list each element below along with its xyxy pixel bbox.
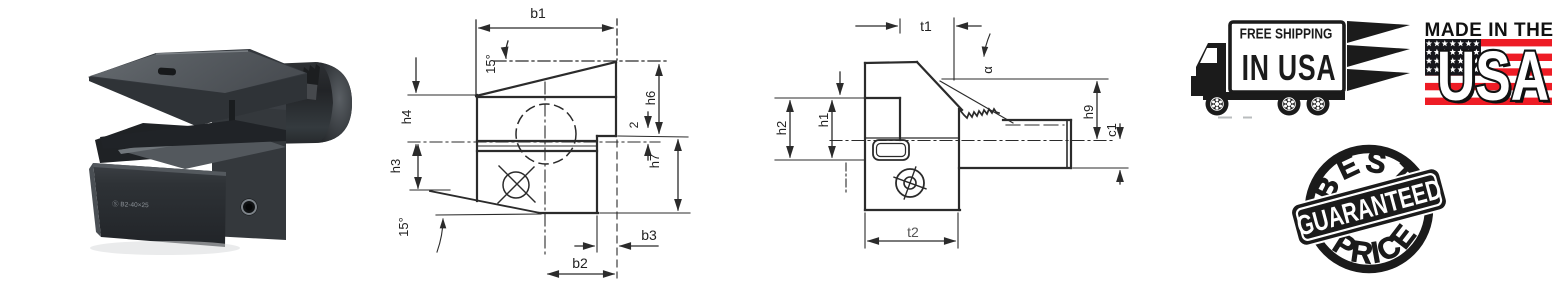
right body face [212, 66, 286, 240]
BEST arched text [1301, 136, 1424, 210]
speed stripe 1 [1347, 21, 1410, 43]
shank end inner line [1066, 120, 1068, 168]
body top edge [865, 62, 917, 63]
shank bottom extension [1073, 167, 1128, 169]
cylinder shank [266, 62, 352, 144]
svg-text:15°: 15° [396, 217, 411, 237]
h2 bottom extension line [775, 159, 865, 161]
sign box [1230, 22, 1344, 92]
truck chassis bar [1203, 92, 1345, 100]
b2 dimension line [548, 273, 614, 275]
cap silhouette [88, 49, 307, 126]
small centerline below seat [845, 163, 847, 192]
cap top slot [158, 67, 176, 75]
svg-text:h9: h9 [1081, 105, 1096, 119]
svg-text:IN USA: IN USA [1242, 47, 1337, 88]
PHOTO: VDI radial tool holder product render [60, 30, 360, 265]
screw inner dot arc [904, 177, 916, 189]
bottom extension line [600, 212, 690, 214]
cylinder serration patch [284, 70, 318, 100]
shank right end [1070, 120, 1072, 168]
bottom horizontal reference line [436, 214, 541, 215]
wheel rear 2 [1307, 93, 1330, 116]
h3 lower extension line [410, 189, 450, 191]
screw cross line 1 [498, 167, 534, 203]
base front top highlight [93, 163, 226, 176]
set screw [241, 199, 258, 216]
body right edge [958, 109, 960, 210]
wedge slope edge [476, 62, 616, 96]
serration teeth [286, 64, 320, 85]
cap right slit [229, 100, 235, 124]
svg-text:h4: h4 [399, 110, 414, 124]
h4 top extension line [408, 94, 477, 96]
clamp screw circle [503, 172, 529, 198]
speed stripe 2 [1347, 45, 1410, 67]
dim 2 arrow upper [647, 112, 649, 127]
BADGE: best guaranteed price stamp [1288, 135, 1453, 286]
b3 dim arrow right [620, 245, 658, 247]
b1 left extension line [475, 20, 477, 96]
h9 dimension line [1096, 82, 1098, 138]
truck front bumper [1191, 76, 1199, 96]
dimension b1 line [479, 27, 613, 29]
svg-text:c1: c1 [1104, 123, 1119, 137]
clamp screw circle [896, 169, 924, 197]
DRAWING 1: front view of tool holder [380, 0, 700, 286]
c1 dim arrow lower [1119, 171, 1121, 184]
b1 right extension line (dashed) [616, 19, 618, 60]
h2 top extension line [775, 97, 865, 99]
ground dashes [1218, 117, 1252, 119]
LOGO: free shipping truck [1185, 10, 1415, 122]
h6 dimension line [658, 65, 660, 133]
svg-text:b1: b1 [530, 5, 546, 21]
h1 dimension line [831, 101, 833, 157]
angle leader arrow [506, 41, 508, 58]
screw cross vertical [904, 167, 916, 199]
seat plate edge highlight [118, 131, 243, 154]
t1 right extension line [953, 18, 955, 80]
body bottom edge [539, 212, 598, 214]
svg-text:h1: h1 [816, 113, 831, 127]
step extension line [618, 136, 688, 137]
h1 outside arrow [839, 72, 841, 94]
cap top face [90, 51, 306, 93]
clamp inner outline [877, 144, 906, 157]
angle reference dash-dot line [494, 60, 668, 62]
b3 left extension [596, 216, 598, 252]
body top edge [477, 96, 616, 98]
svg-text:h2: h2 [774, 121, 789, 135]
flag canton with stars [1425, 39, 1481, 76]
step ledge [597, 135, 616, 137]
seat plate (lighter) [118, 131, 286, 169]
slope thin extension [940, 81, 1013, 123]
arm underside edge [865, 97, 900, 99]
bore vertical centerline [544, 82, 546, 258]
clamp cartridge outline [873, 140, 909, 160]
t2 left extension [864, 213, 866, 248]
bottom angle leader [437, 219, 443, 252]
t1 left extension tick [899, 19, 901, 33]
h3 dimension line [417, 145, 419, 188]
h4 dimension arrow upper [415, 58, 417, 92]
arm inner vertical [899, 98, 901, 140]
c1 dim arrow upper [1119, 124, 1121, 138]
t2 dimension line [868, 240, 955, 242]
svg-text:h7: h7 [647, 154, 662, 168]
svg-text:t1: t1 [920, 18, 932, 34]
base left chamfer [89, 163, 101, 237]
DRAWING 2: side view of tool holder [760, 0, 1140, 286]
cap front dark face [89, 74, 307, 126]
dim 2 arrow lower [647, 145, 649, 160]
h9 top extension line [942, 78, 1108, 80]
svg-text:USA: USA [1437, 38, 1549, 115]
svg-text:t2: t2 [907, 224, 919, 240]
base block top face [95, 123, 252, 163]
shank top edge [1003, 119, 1071, 121]
cap ridge highlight [156, 51, 248, 54]
body left edge [476, 95, 478, 201]
t1 dim arrow right [957, 25, 981, 27]
wheel rear 1 [1278, 93, 1301, 116]
shank serration [959, 109, 999, 118]
b3 dim arrow left [575, 245, 594, 247]
b3 right extension (dashed) [616, 140, 618, 278]
svg-text:2: 2 [627, 121, 641, 128]
base drop shadow [90, 241, 240, 255]
right face shading [212, 66, 286, 110]
truck cab body [1196, 43, 1226, 96]
slot bottom line [477, 150, 597, 152]
top slope edge [917, 62, 962, 110]
svg-text:FREE SHIPPING: FREE SHIPPING [1240, 25, 1333, 42]
h2 dimension line [789, 101, 791, 157]
shank centerline [830, 140, 1112, 142]
bore circle (dashed) [516, 104, 576, 164]
slot shadow under cap [100, 120, 286, 149]
t1 dim arrow left [856, 25, 897, 27]
bottom 15deg slope edge [430, 191, 540, 213]
flag stripes [1425, 39, 1552, 105]
h7 dimension line [677, 140, 679, 210]
svg-text:Ⓢ B2-40×25: Ⓢ B2-40×25 [112, 200, 149, 209]
badge ring [1309, 149, 1429, 269]
body left edge [864, 63, 866, 210]
body right upper edge [615, 62, 617, 136]
shank bottom edge [959, 167, 1071, 169]
svg-text:h6: h6 [643, 91, 658, 105]
screw cross line 2 [499, 166, 535, 202]
speed stripe 3 [1347, 69, 1410, 91]
svg-text:h3: h3 [388, 159, 403, 173]
guaranteed ribbon [1288, 165, 1450, 249]
slot mid line [477, 145, 597, 147]
alpha leader arrow [984, 34, 990, 56]
seat line to face [865, 137, 959, 139]
svg-text:α: α [980, 66, 995, 74]
svg-text:b3: b3 [641, 227, 657, 243]
shank thread dashed line [1006, 124, 1064, 126]
h4 dimension arrow lower [415, 145, 417, 152]
t2 right extension [957, 213, 959, 248]
screw cross horizontal [894, 177, 926, 189]
cylinder end cap shading [316, 62, 352, 143]
svg-text:15°: 15° [483, 54, 498, 74]
wheel front [1206, 93, 1229, 116]
slot top line [477, 140, 597, 142]
PRICE arched text [1323, 214, 1428, 279]
horizontal centerline [408, 141, 660, 143]
base front face [93, 163, 226, 247]
body right lower edge [596, 136, 598, 213]
LOGO: made in the USA flag [1418, 10, 1557, 115]
svg-text:b2: b2 [572, 255, 588, 271]
body bottom edge [865, 209, 960, 211]
cab window [1200, 48, 1217, 63]
